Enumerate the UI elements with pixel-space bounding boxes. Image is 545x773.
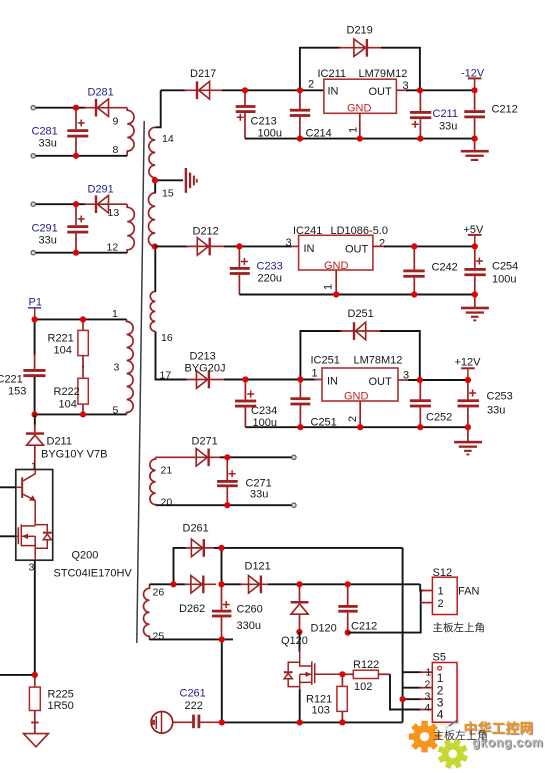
MOSFET gate stub (0, 535, 16, 537)
node C271 top (224, 454, 230, 460)
svg-text:R222: R222 (54, 386, 80, 398)
svg-text:LD1086-5.0: LD1086-5.0 (331, 225, 389, 237)
svg-text:330u: 330u (237, 620, 261, 632)
bottom rail (222, 721, 403, 723)
svg-text:1: 1 (312, 368, 318, 380)
diode D217 (190, 68, 216, 99)
wire 25 row (150, 638, 234, 640)
svg-text:IC211: IC211 (318, 68, 347, 80)
node C214 top (297, 87, 303, 93)
svg-text:S5: S5 (433, 652, 446, 664)
wire D261 row right (214, 547, 403, 549)
D251 bypass loop wires (300, 331, 342, 380)
MOSFET source stub (21, 545, 35, 547)
node C251 bottom (297, 424, 303, 430)
capacitor C221 (0, 319, 46, 414)
capacitor C281 (32, 108, 89, 156)
node C260 top (218, 581, 224, 587)
bottom wire -12V block (245, 138, 475, 140)
ground below C212 (461, 139, 489, 161)
node D120 bottom (296, 629, 302, 635)
svg-text:IN: IN (328, 86, 339, 98)
diode D261 (183, 523, 209, 557)
svg-text:GND: GND (344, 391, 369, 403)
svg-text:P1: P1 (29, 297, 42, 309)
capacitor C234 (235, 380, 277, 430)
svg-text:3: 3 (286, 237, 292, 249)
bottom wire +5V block (239, 294, 474, 296)
IC251 OUT stub (398, 379, 410, 381)
wire D262 row left (150, 583, 187, 585)
diode D251 (348, 308, 374, 340)
svg-text:14: 14 (162, 133, 174, 145)
terminal mid-left 2 (31, 251, 35, 255)
svg-text:OUT: OUT (369, 86, 393, 98)
wire D212 row (155, 245, 188, 247)
resistor R222 (54, 356, 89, 415)
diode D219 (347, 25, 373, 57)
svg-text:33u: 33u (39, 138, 57, 150)
ground below +12V (454, 427, 482, 455)
IC251 regulator (311, 355, 410, 423)
winding 16 (150, 291, 155, 331)
node rail Q120 source (297, 719, 303, 725)
terminal top-left 2 (31, 154, 35, 158)
IC211 OUT stub (396, 89, 408, 91)
resistor R221 (48, 319, 89, 356)
svg-text:C212: C212 (351, 621, 377, 633)
watermark gear orange (409, 721, 441, 753)
wire D271 row (156, 456, 222, 458)
wire D291 to coil (84, 203, 127, 205)
IC251 GND pin (359, 401, 361, 427)
node C271 bottom (224, 502, 230, 508)
resistor R122 (342, 659, 390, 693)
node C212b bottom (345, 630, 351, 636)
svg-text:Q120: Q120 (281, 635, 308, 647)
node C260 bottom (219, 636, 225, 642)
node IC251 IN (297, 376, 303, 382)
svg-text:2: 2 (425, 679, 431, 691)
node C252 bottom (417, 424, 423, 430)
svg-text:C261: C261 (180, 688, 206, 700)
svg-text:IN: IN (327, 376, 338, 388)
winding 15 (149, 193, 156, 247)
svg-text:153: 153 (8, 386, 26, 398)
svg-text:IC251: IC251 (311, 355, 340, 367)
svg-text:100u: 100u (492, 274, 516, 286)
node D262 left (170, 581, 176, 587)
svg-text:C234: C234 (251, 405, 277, 417)
svg-text:C242: C242 (432, 262, 458, 274)
transformer core (137, 121, 144, 643)
node C214 bottom (297, 136, 303, 142)
capacitor C253 (458, 380, 513, 427)
IC241 OUT stub (373, 245, 386, 247)
svg-text:D261: D261 (183, 523, 209, 535)
diode D291 (88, 184, 114, 214)
wire D121 row (222, 583, 243, 585)
svg-text:R221: R221 (48, 333, 74, 345)
svg-text:STC04IE170HV: STC04IE170HV (54, 568, 133, 580)
wire D213 row (168, 379, 188, 381)
svg-text:D262: D262 (179, 603, 205, 615)
svg-text:C213: C213 (251, 116, 277, 128)
wire C212b row to S12 pin2 drop (348, 603, 421, 633)
svg-text:20: 20 (161, 497, 173, 509)
wire D121 row to S12 pin1 (420, 584, 423, 590)
wire S5 pin2 stub (403, 687, 421, 689)
svg-text:C291: C291 (32, 223, 58, 235)
node C291 top (73, 201, 79, 207)
node IC241 GND bottom (333, 291, 339, 297)
node winding 14/15 (152, 177, 158, 183)
svg-text:33u: 33u (439, 121, 457, 133)
wire C291 top (35, 203, 86, 205)
resistor R225 (29, 675, 73, 734)
svg-text:IN: IN (304, 243, 315, 255)
node R225 top (32, 672, 38, 678)
node D121-C212b (345, 581, 351, 587)
node +12V (465, 377, 471, 383)
MOSFET drain stub (21, 525, 35, 527)
earth ground (rotated) (185, 168, 198, 193)
svg-text:1: 1 (438, 586, 444, 598)
winding 13/12 (127, 204, 134, 253)
svg-text:C233: C233 (257, 261, 283, 273)
svg-text:1: 1 (31, 461, 37, 473)
resistor R121 (306, 674, 347, 722)
watermark gear green (434, 735, 472, 773)
svg-text:C254: C254 (492, 261, 518, 273)
capacitor C261 (173, 688, 223, 729)
svg-text:D291: D291 (88, 184, 114, 196)
svg-text:33u: 33u (39, 235, 57, 247)
node S5 pin3 (400, 696, 406, 702)
svg-text:D251: D251 (348, 308, 374, 320)
IC211 regulator (308, 68, 409, 133)
capacitor C252 (410, 380, 452, 427)
node C211 bottom (417, 136, 423, 142)
transistor Q200 (0, 461, 132, 580)
capacitor C212b (338, 584, 377, 632)
body diode of Q120 (284, 671, 293, 673)
diode D120 (291, 584, 337, 634)
pin 17 wire (156, 331, 169, 379)
node winding 15/16 (152, 243, 158, 249)
capacitor C291 (32, 204, 89, 253)
svg-text:IC241: IC241 (293, 225, 322, 237)
wire D261 out to C260 node (221, 548, 223, 584)
svg-text:C251: C251 (311, 417, 337, 429)
node C281 bottom (73, 153, 79, 159)
svg-text:D271: D271 (192, 436, 218, 448)
IGBT base stub (0, 486, 16, 488)
svg-text:1: 1 (112, 308, 118, 320)
capacitor C242 (403, 246, 457, 294)
svg-text:主板左上角: 主板左上角 (433, 728, 488, 742)
wire Q120 drain (299, 632, 301, 652)
svg-text:C221: C221 (0, 374, 23, 386)
node +5V (472, 243, 478, 249)
svg-text:9: 9 (113, 116, 119, 128)
IC241 regulator (286, 225, 389, 290)
node IC251 GND bottom (357, 424, 363, 430)
IGBT emitter with arrow (23, 494, 35, 500)
svg-text:15: 15 (162, 188, 174, 200)
MOSFET body arrow (21, 535, 35, 537)
svg-text:FAN: FAN (458, 586, 479, 598)
ground (open triangle) (24, 734, 49, 747)
IGBT base bar (21, 477, 23, 498)
IC211 GND pin (359, 113, 361, 138)
node rail R121 (339, 719, 345, 725)
svg-text:1: 1 (426, 667, 432, 679)
node GND pin bottom (357, 136, 363, 142)
svg-text:26: 26 (153, 587, 165, 599)
wire 14 junction to winding 15 (154, 180, 156, 193)
bottom wire +12V block (245, 426, 468, 428)
capacitor C212 (464, 90, 517, 138)
wire S12 pin2 vertical (420, 591, 422, 603)
svg-text:12: 12 (107, 242, 119, 254)
wire winding14 to D217 corner (155, 90, 161, 127)
wire C281 bottom (35, 155, 127, 157)
body diode of Q200 (43, 532, 52, 534)
svg-text:D211: D211 (47, 436, 72, 448)
capacitor C260 (212, 584, 263, 639)
svg-text:LM79M12: LM79M12 (359, 68, 408, 80)
wire D281 to coil (84, 107, 127, 109)
terminal D271 bottom (292, 503, 296, 507)
svg-text:+12V: +12V (455, 357, 482, 369)
wire Q120 source down (299, 690, 301, 723)
svg-text:104: 104 (54, 345, 72, 357)
svg-text:GND: GND (347, 103, 372, 115)
terminal D271 top (292, 455, 296, 459)
winding 26/25 (144, 584, 150, 640)
wire P1 bottom row (35, 413, 127, 415)
node C253 bottom (465, 424, 471, 430)
IGBT emitter to mosfet drain (34, 500, 36, 526)
capacitor C254 (464, 246, 518, 294)
svg-text:1: 1 (348, 127, 360, 133)
node P1 (31, 316, 37, 322)
jack J261 (151, 712, 173, 734)
svg-text:C212: C212 (492, 104, 518, 116)
ground below +5V (461, 295, 489, 322)
wire D217 row (161, 89, 186, 91)
svg-text:3: 3 (29, 562, 35, 574)
svg-text:主板左上角: 主板左上角 (433, 621, 486, 634)
diode D213 (185, 351, 226, 389)
svg-text:D219: D219 (347, 25, 373, 37)
svg-text:2: 2 (438, 598, 444, 610)
svg-text:104: 104 (59, 399, 77, 411)
terminal mid-left 1 (31, 202, 35, 206)
svg-text:C252: C252 (426, 412, 452, 424)
node rail C260 (219, 719, 225, 725)
svg-text:3: 3 (114, 362, 120, 374)
node C242 bottom (411, 291, 417, 297)
wire S5 pin1 stub (403, 671, 421, 673)
wire C281 top (35, 107, 86, 109)
node C254 bottom (472, 291, 478, 297)
svg-text:4: 4 (437, 708, 444, 722)
node D261 out (218, 545, 224, 551)
wire to earth (155, 179, 183, 181)
node IC251 OUT (417, 377, 423, 383)
transistor Q120 (281, 635, 342, 691)
svg-text:16: 16 (161, 332, 173, 344)
node R221 top (80, 316, 86, 322)
node C242 top (411, 243, 417, 249)
diode D281 (88, 87, 114, 117)
svg-text:Q200: Q200 (72, 550, 99, 562)
node gate-R121-R122 (339, 671, 345, 677)
svg-text:D121: D121 (245, 561, 271, 573)
wire P1 top row (35, 318, 127, 320)
wire C291 bottom (35, 252, 127, 254)
svg-text:OUT: OUT (369, 376, 393, 388)
node D213-C234 (242, 376, 248, 382)
svg-text:33u: 33u (250, 489, 268, 501)
capacitor C233 (230, 246, 283, 294)
wire C260 node down to rail (221, 639, 223, 722)
capacitor C211 (410, 90, 458, 138)
capacitor C271 (217, 457, 272, 505)
capacitor C251 (291, 380, 337, 429)
node IC211 OUT (417, 87, 423, 93)
diode D212 (193, 226, 219, 256)
node C233 top (236, 243, 242, 249)
source through box bottom (34, 548, 36, 560)
svg-text:C211: C211 (433, 108, 458, 120)
power terminal +5V (464, 224, 485, 246)
svg-text:D212: D212 (193, 226, 219, 238)
MOSFET channel plate (20, 524, 22, 546)
svg-text:D281: D281 (88, 87, 114, 99)
wire S5 pin3 stub (403, 698, 421, 700)
svg-text:2: 2 (379, 238, 385, 250)
page curl at S5 box corner (449, 720, 458, 726)
IGBT collector (23, 470, 35, 481)
winding 21/20 (150, 457, 156, 505)
svg-text:220u: 220u (258, 273, 282, 285)
capacitor C213 (236, 90, 282, 139)
svg-text:103: 103 (312, 705, 330, 717)
winding 9/8 (top-left) (127, 108, 134, 156)
connector S12 (432, 567, 479, 615)
MOSFET gate plate (17, 527, 19, 544)
svg-text:LM78M12: LM78M12 (354, 355, 403, 367)
watermark text gkong (464, 720, 545, 751)
node D217-C213 (242, 87, 248, 93)
node -12V (472, 87, 478, 93)
svg-text:33u: 33u (487, 405, 505, 417)
power terminal -12V (461, 68, 485, 91)
node D121-D120 (296, 581, 302, 587)
svg-text:C281: C281 (32, 126, 58, 138)
winding 1/3/5 primary (127, 319, 134, 414)
wire 20 row (156, 504, 292, 506)
terminal top-left 1 (31, 106, 35, 110)
svg-text:25: 25 (153, 631, 165, 643)
svg-text:8: 8 (113, 144, 119, 156)
diode D211 (26, 414, 108, 469)
svg-text:D217: D217 (190, 68, 216, 80)
wire Q200 emitter down (34, 560, 36, 675)
svg-text:1R50: 1R50 (48, 700, 74, 712)
svg-text:2: 2 (347, 416, 359, 422)
svg-text:C253: C253 (487, 391, 513, 403)
IC241 GND pin (335, 270, 337, 295)
node C281 top (73, 105, 79, 111)
svg-text:2: 2 (308, 79, 314, 91)
svg-text:BYG20J: BYG20J (185, 363, 226, 375)
node C212 bottom (472, 136, 478, 142)
svg-text:C260: C260 (237, 604, 263, 616)
diode D262 (179, 576, 205, 616)
gate lead (315, 673, 343, 675)
node C291 bottom (73, 250, 79, 256)
svg-text:D120: D120 (311, 623, 337, 635)
wire bottom-left (0, 674, 35, 676)
svg-text:222: 222 (185, 700, 203, 712)
svg-text:1: 1 (323, 284, 335, 290)
svg-text:BYG10Y V7B: BYG10Y V7B (41, 449, 107, 461)
svg-text:D213: D213 (190, 351, 216, 363)
svg-text:OUT: OUT (345, 244, 369, 256)
svg-text:4: 4 (425, 702, 431, 714)
node P1 label (28, 297, 42, 318)
wire R122 to S5 pin4 (390, 674, 421, 709)
connector S5 (425, 652, 460, 729)
diode D271 (192, 436, 218, 467)
node P1 bottom (31, 411, 37, 417)
capacitor C214 (290, 90, 332, 139)
svg-text:R122: R122 (353, 659, 379, 671)
power terminal +12V (455, 357, 482, 381)
node R222 bottom (80, 411, 86, 417)
diode D121 (245, 561, 271, 594)
svg-text:21: 21 (161, 465, 173, 477)
long vertical D261 to S5 (402, 548, 404, 723)
D219 bypass loop wires (300, 48, 341, 91)
svg-text:R225: R225 (48, 689, 74, 701)
svg-text:102: 102 (354, 681, 372, 693)
D261 loop left vertical (174, 548, 188, 584)
svg-text:3: 3 (425, 691, 431, 703)
wire 15 junction to winding 16 (154, 247, 156, 293)
winding 14 (149, 127, 155, 180)
